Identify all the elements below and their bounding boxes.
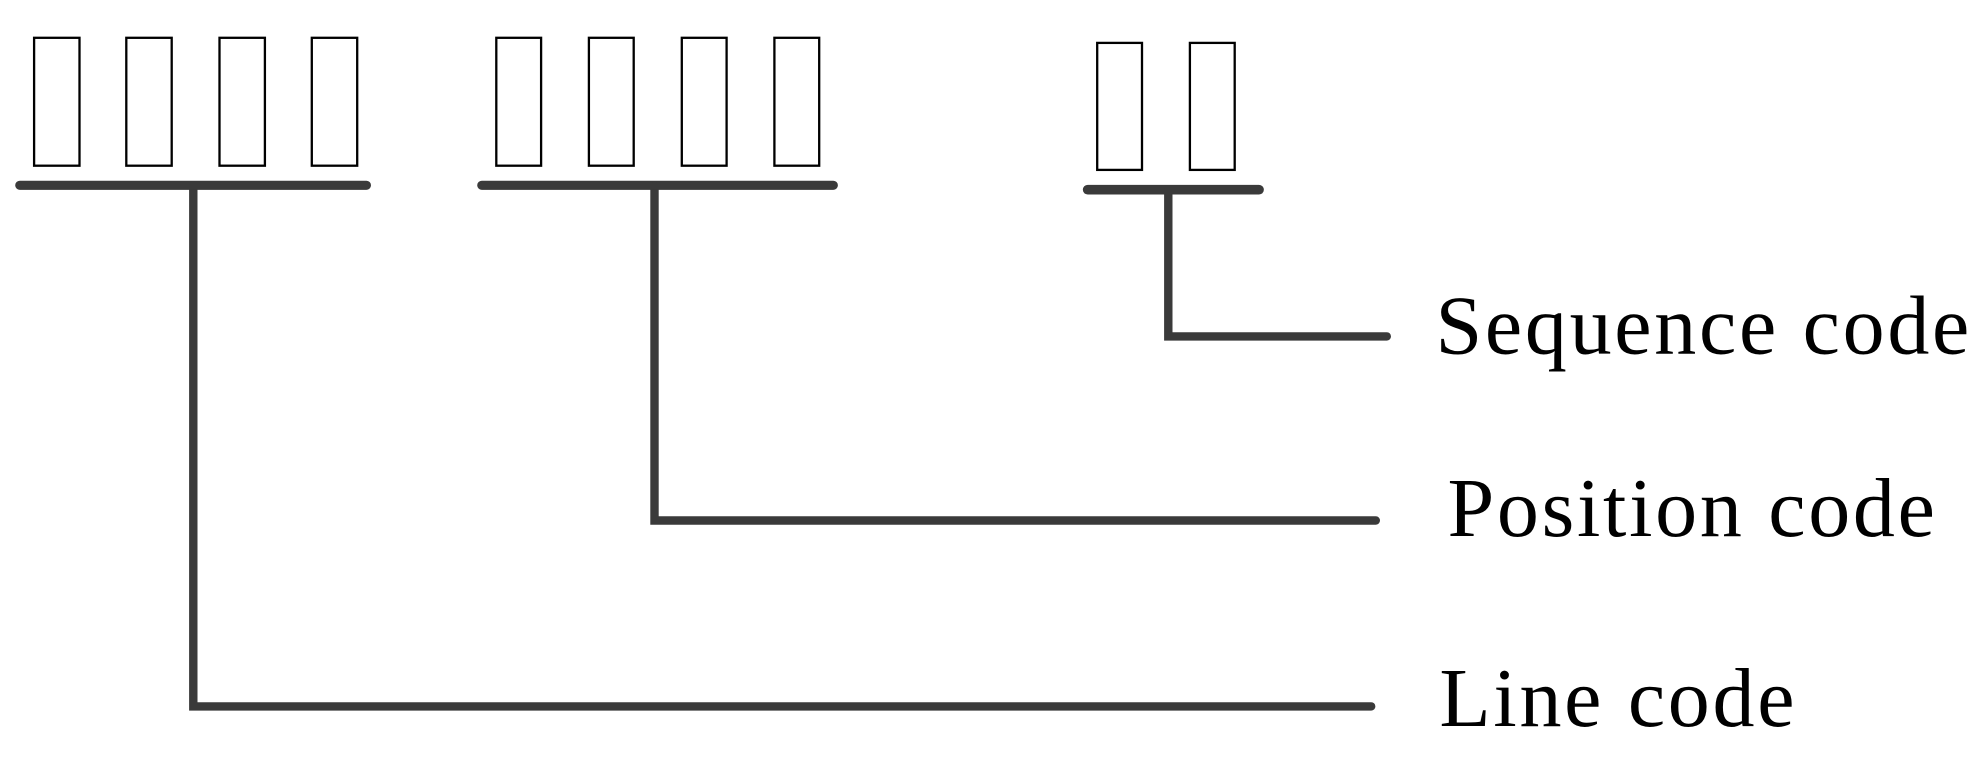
sequence-code group underline bar [1088,185,1259,195]
wire: sequence-code connector [1168,190,1387,336]
position-code digit box 6 [589,38,634,166]
line-code digit box 2 [126,38,171,166]
line-code group underline bar [20,181,367,190]
position-code digit box 7 [682,38,727,166]
svg-text:Position code: Position code [1448,462,1938,555]
line-code digit box 4 [312,38,357,166]
sequence-code digit box 10 [1190,43,1235,170]
position-code digit box 5 [496,38,541,166]
sequence-code digit box 9 [1097,43,1142,170]
wire: line-code connector [193,186,1371,706]
line-code digit box 3 [220,38,265,166]
svg-text:Line code: Line code [1439,652,1797,745]
line-code digit box 1 [34,38,79,166]
position-code group underline bar [482,181,834,190]
position-code digit box 8 [774,38,819,166]
svg-text:Sequence code: Sequence code [1436,280,1973,373]
wire: position-code connector [655,186,1376,521]
